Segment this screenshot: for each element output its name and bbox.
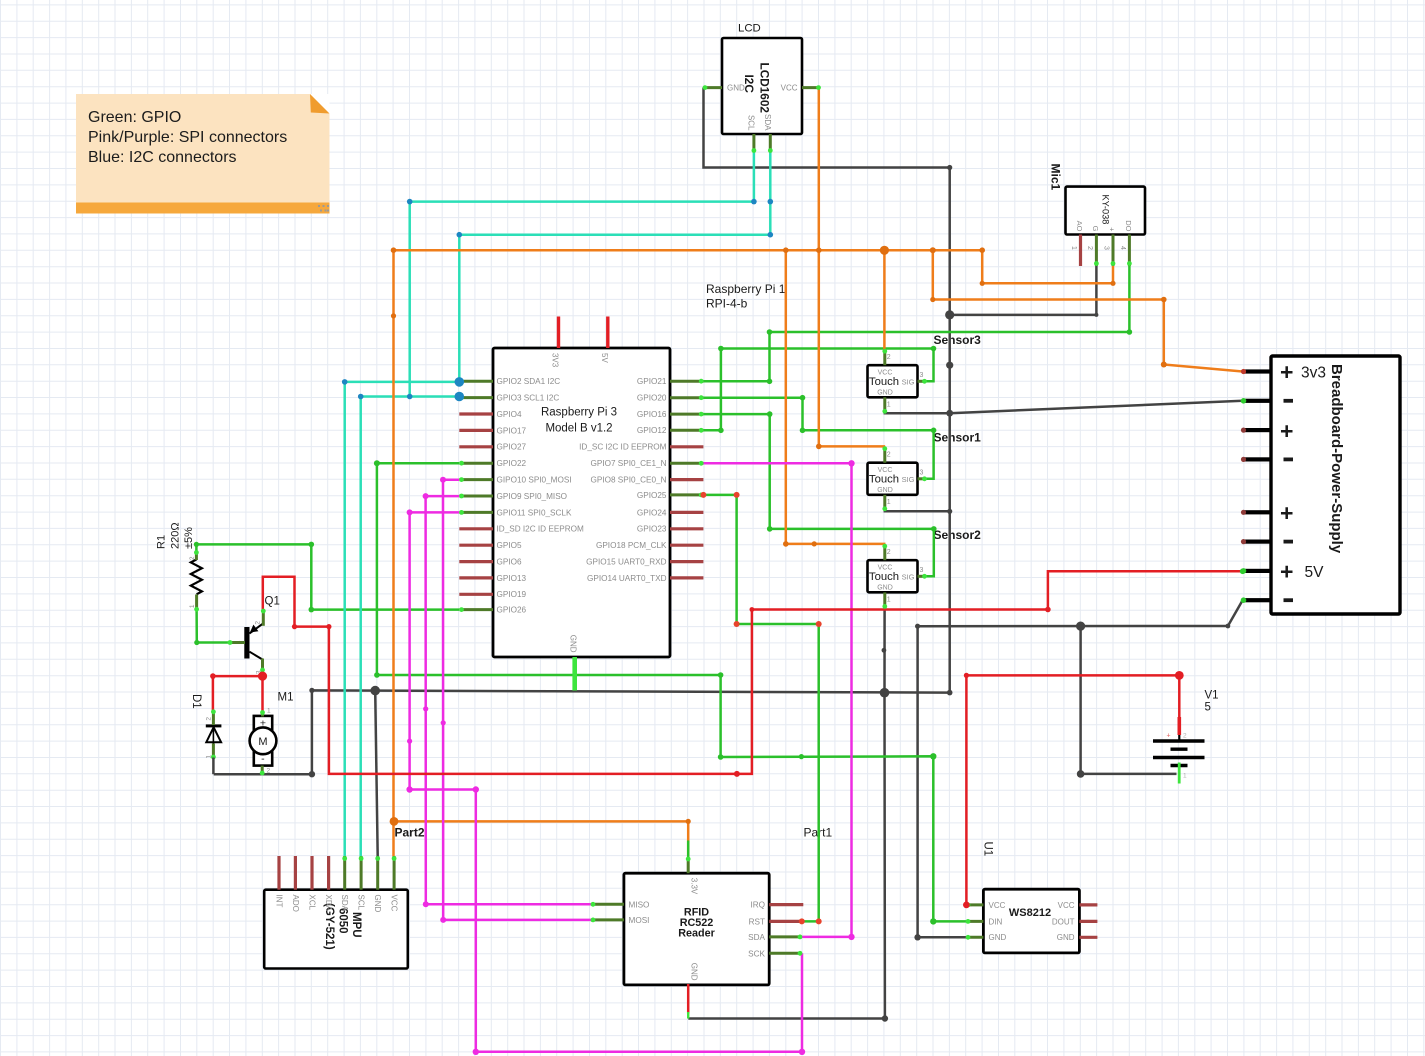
svg-text:6050: 6050 (336, 908, 348, 934)
svg-text:GPIO27: GPIO27 (497, 443, 527, 452)
wire: GPIO10 MOSI to RFID MOSI (443, 480, 591, 920)
Raspberry Pi 3 (493, 282, 786, 657)
svg-text:Touch: Touch (869, 473, 899, 485)
svg-text:GPIO5: GPIO5 (497, 541, 522, 550)
svg-text:2: 2 (1086, 246, 1093, 250)
wire: orange rail to Sensor2 VCC (786, 250, 884, 545)
svg-text:4: 4 (1119, 246, 1126, 250)
svg-text:VCC: VCC (989, 901, 1006, 910)
pins: RFID RC522 (687, 858, 690, 874)
pin: Pi 5V stub (606, 317, 609, 349)
svg-text:GPIO13: GPIO13 (497, 574, 527, 583)
wire: GPIO20 to Sensor1 SIG (703, 398, 933, 479)
svg-text:Breadboard-Power-Supply: Breadboard-Power-Supply (1328, 364, 1345, 554)
svg-text:DOUT: DOUT (1052, 917, 1075, 926)
svg-text:MISO: MISO (629, 900, 650, 909)
battery V1 (1153, 690, 1219, 780)
svg-text:GPIO7 SPI0_CE1_N: GPIO7 SPI0_CE1_N (591, 459, 667, 468)
junctions: SPI magenta net dots (440, 477, 446, 483)
svg-text:GIPO10 SPI0_MOSI: GIPO10 SPI0_MOSI (497, 476, 572, 485)
WS8212 LED (U1) (982, 842, 1080, 953)
pins: Raspberry Pi left (459, 380, 493, 383)
Sensor1 touch sensor (868, 430, 982, 506)
svg-text:D1: D1 (190, 694, 202, 709)
svg-text:2: 2 (887, 354, 891, 361)
junctions: ground net dots (947, 165, 952, 170)
svg-text:+: + (1280, 559, 1293, 585)
wire: GPIO7 CE1 to RFID SDA (703, 463, 851, 937)
svg-text:GPIO16: GPIO16 (637, 410, 667, 419)
junctions: 3v3 orange net dots (783, 247, 789, 253)
wire: Mic1 G pin to ground bus (950, 266, 1097, 315)
svg-text:ADO: ADO (291, 895, 300, 912)
pins: touch sensor box 1 (883, 349, 886, 365)
Sensor2 touch sensor (868, 528, 982, 604)
svg-text:SIG: SIG (902, 475, 915, 484)
pins: R1 (195, 552, 198, 560)
svg-text:GPIO24: GPIO24 (637, 508, 667, 517)
svg-text:2: 2 (887, 452, 891, 459)
wire: SCL net (LCD SCL - GPIO3 - MPU SCL) (410, 151, 754, 397)
svg-text:3v3: 3v3 (1301, 364, 1326, 381)
svg-text:1: 1 (887, 597, 891, 604)
svg-text:1: 1 (189, 604, 196, 608)
svg-text:SDA: SDA (748, 933, 765, 942)
pins: Raspberry Pi right (670, 380, 703, 383)
svg-text:Touch: Touch (869, 571, 899, 583)
wire: RFID GND down (687, 984, 690, 1014)
wire: GPIO25 to RFID RST (703, 495, 818, 922)
svg-text:GPIO9 SPI0_MISO: GPIO9 SPI0_MISO (497, 492, 568, 501)
svg-text:M1: M1 (278, 692, 294, 704)
svg-text:Sensor1: Sensor1 (934, 430, 982, 444)
svg-text:1: 1 (1070, 246, 1077, 250)
svg-text:SCK: SCK (748, 949, 765, 958)
svg-text:GPIO8 SPI0_CE0_N: GPIO8 SPI0_CE0_N (591, 476, 667, 485)
svg-text:Sensor2: Sensor2 (934, 528, 982, 542)
svg-text:VCC: VCC (781, 84, 798, 93)
resistor R1 (156, 522, 202, 608)
svg-text:Mic1: Mic1 (1049, 164, 1063, 191)
svg-text:KY-038: KY-038 (1100, 195, 1110, 225)
svg-text:GPIO12: GPIO12 (637, 426, 667, 435)
transistor Q1 (235, 596, 280, 675)
pins: Mic1 KY-038 (1079, 235, 1082, 267)
wire: power supply pin2 minus (950, 401, 1243, 413)
pins: Q1 (230, 641, 245, 644)
svg-text:LCD1602: LCD1602 (758, 63, 772, 114)
svg-text:+: + (1280, 418, 1293, 444)
wire: Sensor1 GND to ground bus (885, 510, 950, 511)
wire: Sensor2 GND / RFID GND vertical (688, 609, 885, 1019)
svg-text:2: 2 (255, 621, 262, 625)
svg-text:GND: GND (989, 933, 1007, 942)
svg-text:Blue: I2C connectors: Blue: I2C connectors (88, 149, 237, 166)
svg-text:SIG: SIG (902, 572, 915, 581)
svg-text:ID_SD I2C ID EEPROM: ID_SD I2C ID EEPROM (497, 525, 585, 534)
svg-text:Raspberry Pi 3: Raspberry Pi 3 (541, 407, 617, 419)
note: wire color legend (76, 94, 330, 214)
svg-text:5: 5 (1205, 702, 1211, 714)
RFID RC522 reader (624, 873, 769, 985)
svg-text:GPIO3 SCL1 I2C: GPIO3 SCL1 I2C (497, 394, 560, 403)
wire: GPIO12 to Sensor3 SIG (703, 349, 933, 431)
svg-text:GPIO25: GPIO25 (637, 491, 667, 500)
wire: R1 pin1 to Q1 base (197, 610, 230, 643)
wire: LCD VCC down to Sensor1 VCC (819, 88, 884, 448)
svg-text:±5%: ±5% (183, 527, 195, 549)
svg-text:IRQ: IRQ (750, 901, 765, 910)
svg-text:SDA: SDA (340, 895, 349, 912)
svg-text:MOSI: MOSI (629, 916, 650, 925)
svg-text:Pink/Purple: SPI connectors: Pink/Purple: SPI connectors (88, 129, 287, 146)
wire: orange rail to MPU VCC (Part2) (392, 250, 395, 856)
junctions: 5V / signal red dots (700, 492, 706, 498)
svg-text:+: + (1280, 359, 1293, 385)
Sensor3 touch sensor (868, 333, 982, 409)
wire: Part2 to RFID 3.3V (394, 820, 688, 823)
pins: M1 (261, 711, 264, 717)
svg-text:GPIO20: GPIO20 (637, 394, 667, 403)
pins: WS8212 (966, 903, 983, 906)
svg-text:GPIO18 PCM_CLK: GPIO18 PCM_CLK (596, 541, 667, 550)
svg-text:3: 3 (920, 372, 924, 379)
svg-text:GPIO15 UART0_RXD: GPIO15 UART0_RXD (586, 558, 666, 567)
wire: GPIO16 to Sensor2 SIG (703, 414, 933, 576)
svg-text:GPIO14 UART0_TXD: GPIO14 UART0_TXD (587, 574, 667, 583)
svg-text:Reader: Reader (678, 928, 715, 940)
svg-text:GND: GND (877, 390, 893, 397)
svg-text:3.3V: 3.3V (690, 878, 699, 895)
svg-text:5V: 5V (600, 353, 609, 363)
wire: GPIO9 MISO to RFID MISO (426, 496, 591, 904)
svg-text:1: 1 (1183, 773, 1187, 780)
svg-text:SDA: SDA (763, 114, 772, 131)
pin: Pi 3V3 stub (557, 317, 560, 349)
wire: orange rail to power supply 3v3 (933, 250, 1243, 371)
wire: orange rail to Sensor3 VCC (883, 250, 886, 350)
wire: power supply 5V to Q1 collector (263, 571, 1243, 774)
svg-text:GPIO26: GPIO26 (497, 606, 527, 615)
wire: GPIO26 to R1 pin2 (196, 544, 459, 609)
svg-text:INT: INT (274, 895, 283, 908)
wire: battery plus to WS8212 VCC (966, 675, 1179, 905)
svg-text:GND: GND (1057, 933, 1075, 942)
svg-text:G: G (1091, 226, 1100, 232)
pins: touch sensor box 3 (883, 544, 886, 560)
pins: breadboard power supply (1243, 369, 1272, 373)
svg-text:XCL: XCL (307, 895, 316, 911)
svg-text:GPIO4: GPIO4 (497, 410, 522, 419)
svg-text:3: 3 (1103, 246, 1110, 250)
svg-text:SIG: SIG (902, 377, 915, 386)
svg-text:GPIO11 SPI0_SCLK: GPIO11 SPI0_SCLK (497, 508, 572, 517)
junctions: GPIO green net dots (374, 460, 380, 466)
Mic1 KY-038 (1049, 164, 1146, 251)
wire: WS8212 GND to battery/power minus (918, 600, 1243, 937)
pins: touch sensor box 2 (883, 447, 886, 463)
svg-text:U1: U1 (982, 842, 994, 857)
svg-text:RST: RST (749, 917, 765, 926)
LCD1602 I2C display (722, 23, 802, 135)
svg-text:GND: GND (727, 84, 745, 93)
wire: SDA net (LCD SDA - GPIO2 - MPU SDA) (459, 151, 770, 382)
junctions: I2C blue dots (751, 199, 757, 205)
svg-text:220Ω: 220Ω (170, 522, 182, 549)
svg-text:SCL: SCL (357, 895, 366, 911)
svg-text:VCC: VCC (390, 895, 399, 912)
svg-text:GPIO17: GPIO17 (497, 426, 527, 435)
wire: GPIO11 SCLK to RFID SCK (410, 512, 802, 1051)
svg-text:3V3: 3V3 (551, 353, 560, 368)
svg-text:3: 3 (920, 470, 924, 477)
motor M1 (250, 692, 294, 775)
svg-text:2: 2 (1183, 733, 1187, 740)
svg-text:AO: AO (1075, 221, 1084, 232)
svg-text:DO: DO (1124, 220, 1133, 231)
wire: ground bus to MPU GND (375, 691, 378, 857)
svg-text:GND: GND (877, 487, 893, 494)
svg-text:Touch: Touch (869, 376, 899, 388)
svg-text:1: 1 (887, 499, 891, 506)
svg-text:GPIO22: GPIO22 (497, 459, 527, 468)
svg-text:MPU: MPU (350, 912, 362, 938)
pins: LCD (705, 86, 722, 89)
svg-text:+: + (1108, 227, 1117, 232)
svg-text:GPIO2 SDA1 I2C: GPIO2 SDA1 I2C (497, 377, 561, 386)
pins: battery V1 (1178, 735, 1180, 742)
wire: 3v3 main orange rail (394, 250, 1114, 283)
svg-text:ID_SC I2C ID EEPROM: ID_SC I2C ID EEPROM (579, 443, 667, 452)
svg-text:GPIO6: GPIO6 (497, 558, 522, 567)
svg-text:RPI-4-b: RPI-4-b (706, 297, 748, 311)
svg-text:Green: GPIO: Green: GPIO (88, 109, 181, 126)
wire: GPIO22 to WS8212 DIN (377, 463, 967, 921)
wire: battery negative lead (1081, 626, 1177, 774)
pins: MPU6050 (277, 856, 280, 890)
svg-text:GPIO21: GPIO21 (637, 377, 667, 386)
svg-text:3: 3 (920, 567, 924, 574)
pins: D1 (212, 711, 215, 725)
wire: main ground bus horizontal (214, 690, 950, 774)
svg-text:+: + (1167, 733, 1171, 740)
svg-text:R1: R1 (156, 535, 168, 549)
svg-text:GND: GND (690, 963, 699, 981)
svg-text:GND: GND (877, 585, 893, 592)
wire: Sensor3 GND to ground bus (885, 412, 950, 413)
svg-text:Raspberry Pi 1: Raspberry Pi 1 (706, 282, 786, 296)
wire: LCD GND to ground bus vertical (704, 88, 950, 693)
svg-text:XDA: XDA (324, 895, 333, 912)
svg-text:GPIO23: GPIO23 (637, 525, 667, 534)
svg-text:+: + (1280, 500, 1293, 526)
svg-text:5V: 5V (1305, 564, 1325, 581)
pin: Pi GND stub (572, 657, 577, 691)
svg-text:2: 2 (887, 549, 891, 556)
svg-text:Part2: Part2 (395, 826, 425, 840)
svg-text:Model B v1.2: Model B v1.2 (545, 423, 612, 435)
svg-text:GND: GND (569, 635, 578, 653)
svg-text:DIN: DIN (989, 917, 1003, 926)
svg-text:SCL: SCL (747, 115, 756, 131)
svg-text:GND: GND (373, 895, 382, 913)
svg-text:Q1: Q1 (265, 596, 280, 608)
svg-text:2: 2 (206, 717, 213, 721)
svg-text:GPIO19: GPIO19 (497, 590, 527, 599)
svg-text:V1: V1 (1205, 690, 1219, 702)
svg-text:WS8212: WS8212 (1009, 907, 1051, 919)
svg-text:Sensor3: Sensor3 (934, 333, 982, 347)
svg-text:VCC: VCC (1058, 901, 1075, 910)
wire: RFID 3.3V link (687, 821, 690, 858)
diode D1 (190, 694, 221, 759)
svg-text:1: 1 (887, 402, 891, 409)
wire: GPIO21 to Mic1 DO (703, 266, 1129, 381)
wire: Q1 emitter junction to D1 and M1 (261, 672, 264, 711)
MPU6050 (264, 890, 408, 969)
svg-text:M: M (258, 736, 267, 748)
svg-text:1: 1 (267, 708, 271, 715)
svg-text:LCD: LCD (738, 23, 761, 35)
breadboard power supply (1271, 356, 1400, 614)
